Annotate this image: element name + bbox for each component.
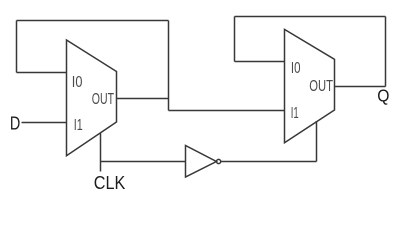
svg-text:I0: I0 bbox=[291, 60, 301, 77]
svg-text:I0: I0 bbox=[72, 74, 83, 91]
svg-text:OUT: OUT bbox=[92, 91, 114, 108]
svg-text:Q: Q bbox=[377, 86, 389, 106]
svg-text:I1: I1 bbox=[74, 117, 83, 134]
svg-text:D: D bbox=[10, 114, 20, 134]
svg-text:CLK: CLK bbox=[94, 173, 126, 193]
svg-text:I1: I1 bbox=[291, 105, 299, 122]
svg-text:OUT: OUT bbox=[309, 78, 333, 95]
